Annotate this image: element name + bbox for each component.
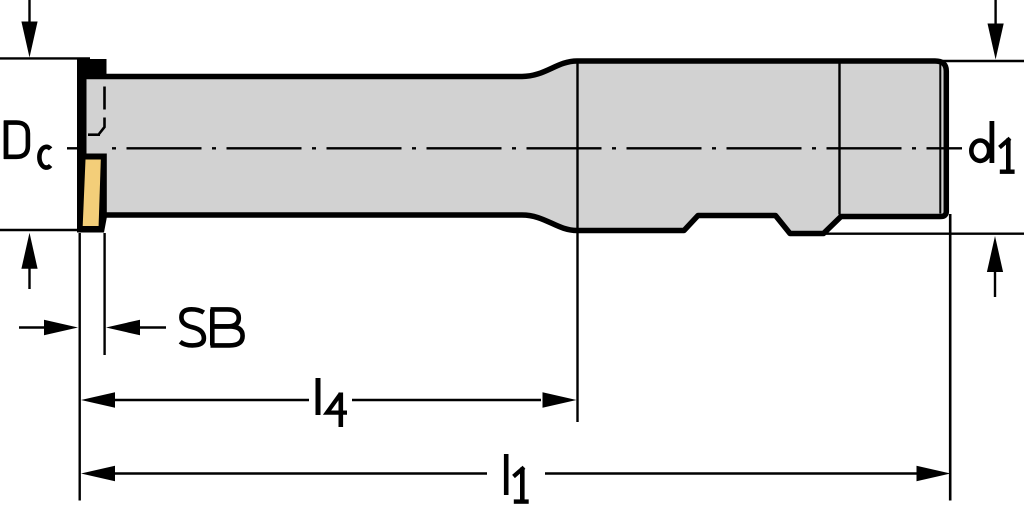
tool body (gray) fill xyxy=(86,61,946,234)
left extension line (tool tip) xyxy=(78,233,80,501)
top-right down arrow xyxy=(994,0,996,25)
Dc label xyxy=(4,121,51,168)
d1 label xyxy=(971,121,1014,172)
l1 right extension line xyxy=(949,214,952,501)
Dc bottom reference line xyxy=(0,229,80,231)
bottom-right up arrow xyxy=(987,236,1003,272)
d1 top reference line xyxy=(940,60,1024,62)
left edge black bar xyxy=(77,59,87,233)
Dc top reference line xyxy=(0,57,90,59)
contour line x=839.5 xyxy=(838,62,840,215)
l1 dimension line xyxy=(81,466,115,482)
l4 label xyxy=(318,378,347,427)
contour line at shank start x=577 (also l4 extension line) xyxy=(576,60,578,422)
l4 dimension line xyxy=(81,392,115,408)
centerline (dash-dot) xyxy=(67,147,81,149)
insert black border xyxy=(79,154,107,233)
l1 label xyxy=(506,454,529,502)
hidden (dashed) pocket lines xyxy=(103,87,106,110)
SB dimension arrows xyxy=(19,326,46,328)
SB label xyxy=(180,309,242,345)
bottom-left up arrow xyxy=(21,233,37,269)
cutting corner black block (top-left) xyxy=(77,59,107,75)
tool body outline xyxy=(86,61,946,234)
d1 bottom reference line xyxy=(800,232,1024,234)
insert (yellow carbide) xyxy=(83,160,101,227)
chamfer line at right end x=939 xyxy=(939,65,941,214)
SB right extension line xyxy=(103,233,105,355)
top-left down arrow xyxy=(28,0,30,24)
